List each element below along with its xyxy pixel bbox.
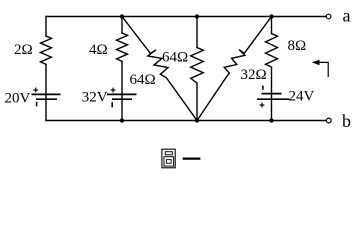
resistor 64ohm vertical [191,48,204,84]
battery 24V plates [257,94,289,100]
resistor 64ohm left diagonal [122,17,197,121]
junction node top branch4 [269,14,273,18]
wire left branch upper [45,17,47,37]
battery 20V plates [32,94,61,99]
svg-text:20V: 20V [5,90,31,106]
svg-text:4Ω: 4Ω [89,42,108,58]
battery 20V polarity marks [33,88,38,107]
wire branch2 upper [121,17,123,34]
svg-text:8Ω: 8Ω [288,38,307,54]
wire branch4 upper [271,17,273,34]
wire bottom bus [46,120,326,122]
resistor 4ohm [117,33,128,61]
svg-text:32Ω: 32Ω [241,67,267,83]
current direction arrow [318,62,328,77]
resistor 32ohm right diagonal [197,17,272,121]
terminal b circle [326,118,331,123]
svg-text:64Ω: 64Ω [162,50,188,66]
wire branch3 upper [196,17,198,48]
junction node bottom branch3 [195,118,199,122]
terminal a circle [326,14,331,19]
wire branch3 lower [196,83,198,120]
wire top bus [46,16,326,18]
junction node top branch2 [120,14,124,18]
svg-text:2Ω: 2Ω [14,42,33,58]
svg-text:a: a [343,6,351,26]
svg-text:b: b [342,111,351,131]
battery 24V polarity marks [260,86,265,108]
svg-text:24V: 24V [289,89,315,105]
battery 32V plates [107,94,137,99]
wire left branch lower [45,64,47,120]
svg-text:32V: 32V [82,89,108,105]
resistor 8ohm [266,34,278,68]
junction node bottom branch2 [120,118,124,122]
svg-text:64Ω: 64Ω [130,72,156,88]
wire branch4 lower [271,67,273,120]
junction node top branch3 [195,14,199,18]
battery 32V polarity marks [111,88,116,108]
junction node bottom branch4 [269,118,273,122]
caption glyph TU (figure) [162,149,175,168]
caption glyph YI (one) [183,157,201,159]
resistor 2ohm [41,36,52,64]
wire branch2 lower [121,61,123,120]
